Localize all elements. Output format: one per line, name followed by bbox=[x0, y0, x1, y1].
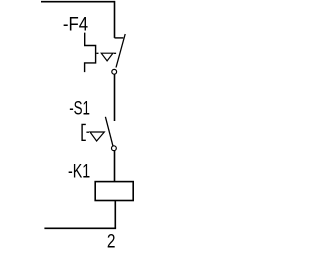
mechanical link dash 2 bbox=[114, 52, 116, 54]
wire from top rail down to F4 contact bbox=[114, 1, 116, 38]
relay coil K1 bbox=[95, 182, 133, 201]
wire top rail bbox=[41, 1, 115, 3]
wire F4 to S1 bbox=[114, 74, 116, 121]
mechanical link dash 1 bbox=[96, 52, 98, 54]
contact S1 blade (NO) bbox=[105, 117, 113, 146]
svg-text:-K1: -K1 bbox=[68, 161, 90, 182]
pushbutton actuator bracket S1 bbox=[82, 124, 86, 140]
wire K1 down bbox=[114, 201, 116, 229]
contact F4 blade (NC) bbox=[116, 34, 125, 68]
wire S1 to K1 bbox=[114, 151, 116, 182]
contact S1 pivot circle bbox=[112, 146, 117, 151]
actuator link dash S1 bbox=[86, 131, 89, 133]
release triangle S1 bbox=[90, 132, 104, 141]
contact F4 pivot circle bbox=[112, 69, 117, 74]
svg-text:-S1: -S1 bbox=[69, 99, 90, 120]
contact F4 fixed bar bbox=[115, 37, 124, 39]
svg-text:-F4: -F4 bbox=[63, 15, 88, 36]
svg-text:2: 2 bbox=[107, 231, 116, 252]
release triangle F4 bbox=[101, 53, 113, 61]
wire bottom rail bbox=[44, 227, 116, 229]
thermal element F4 bbox=[85, 33, 96, 73]
